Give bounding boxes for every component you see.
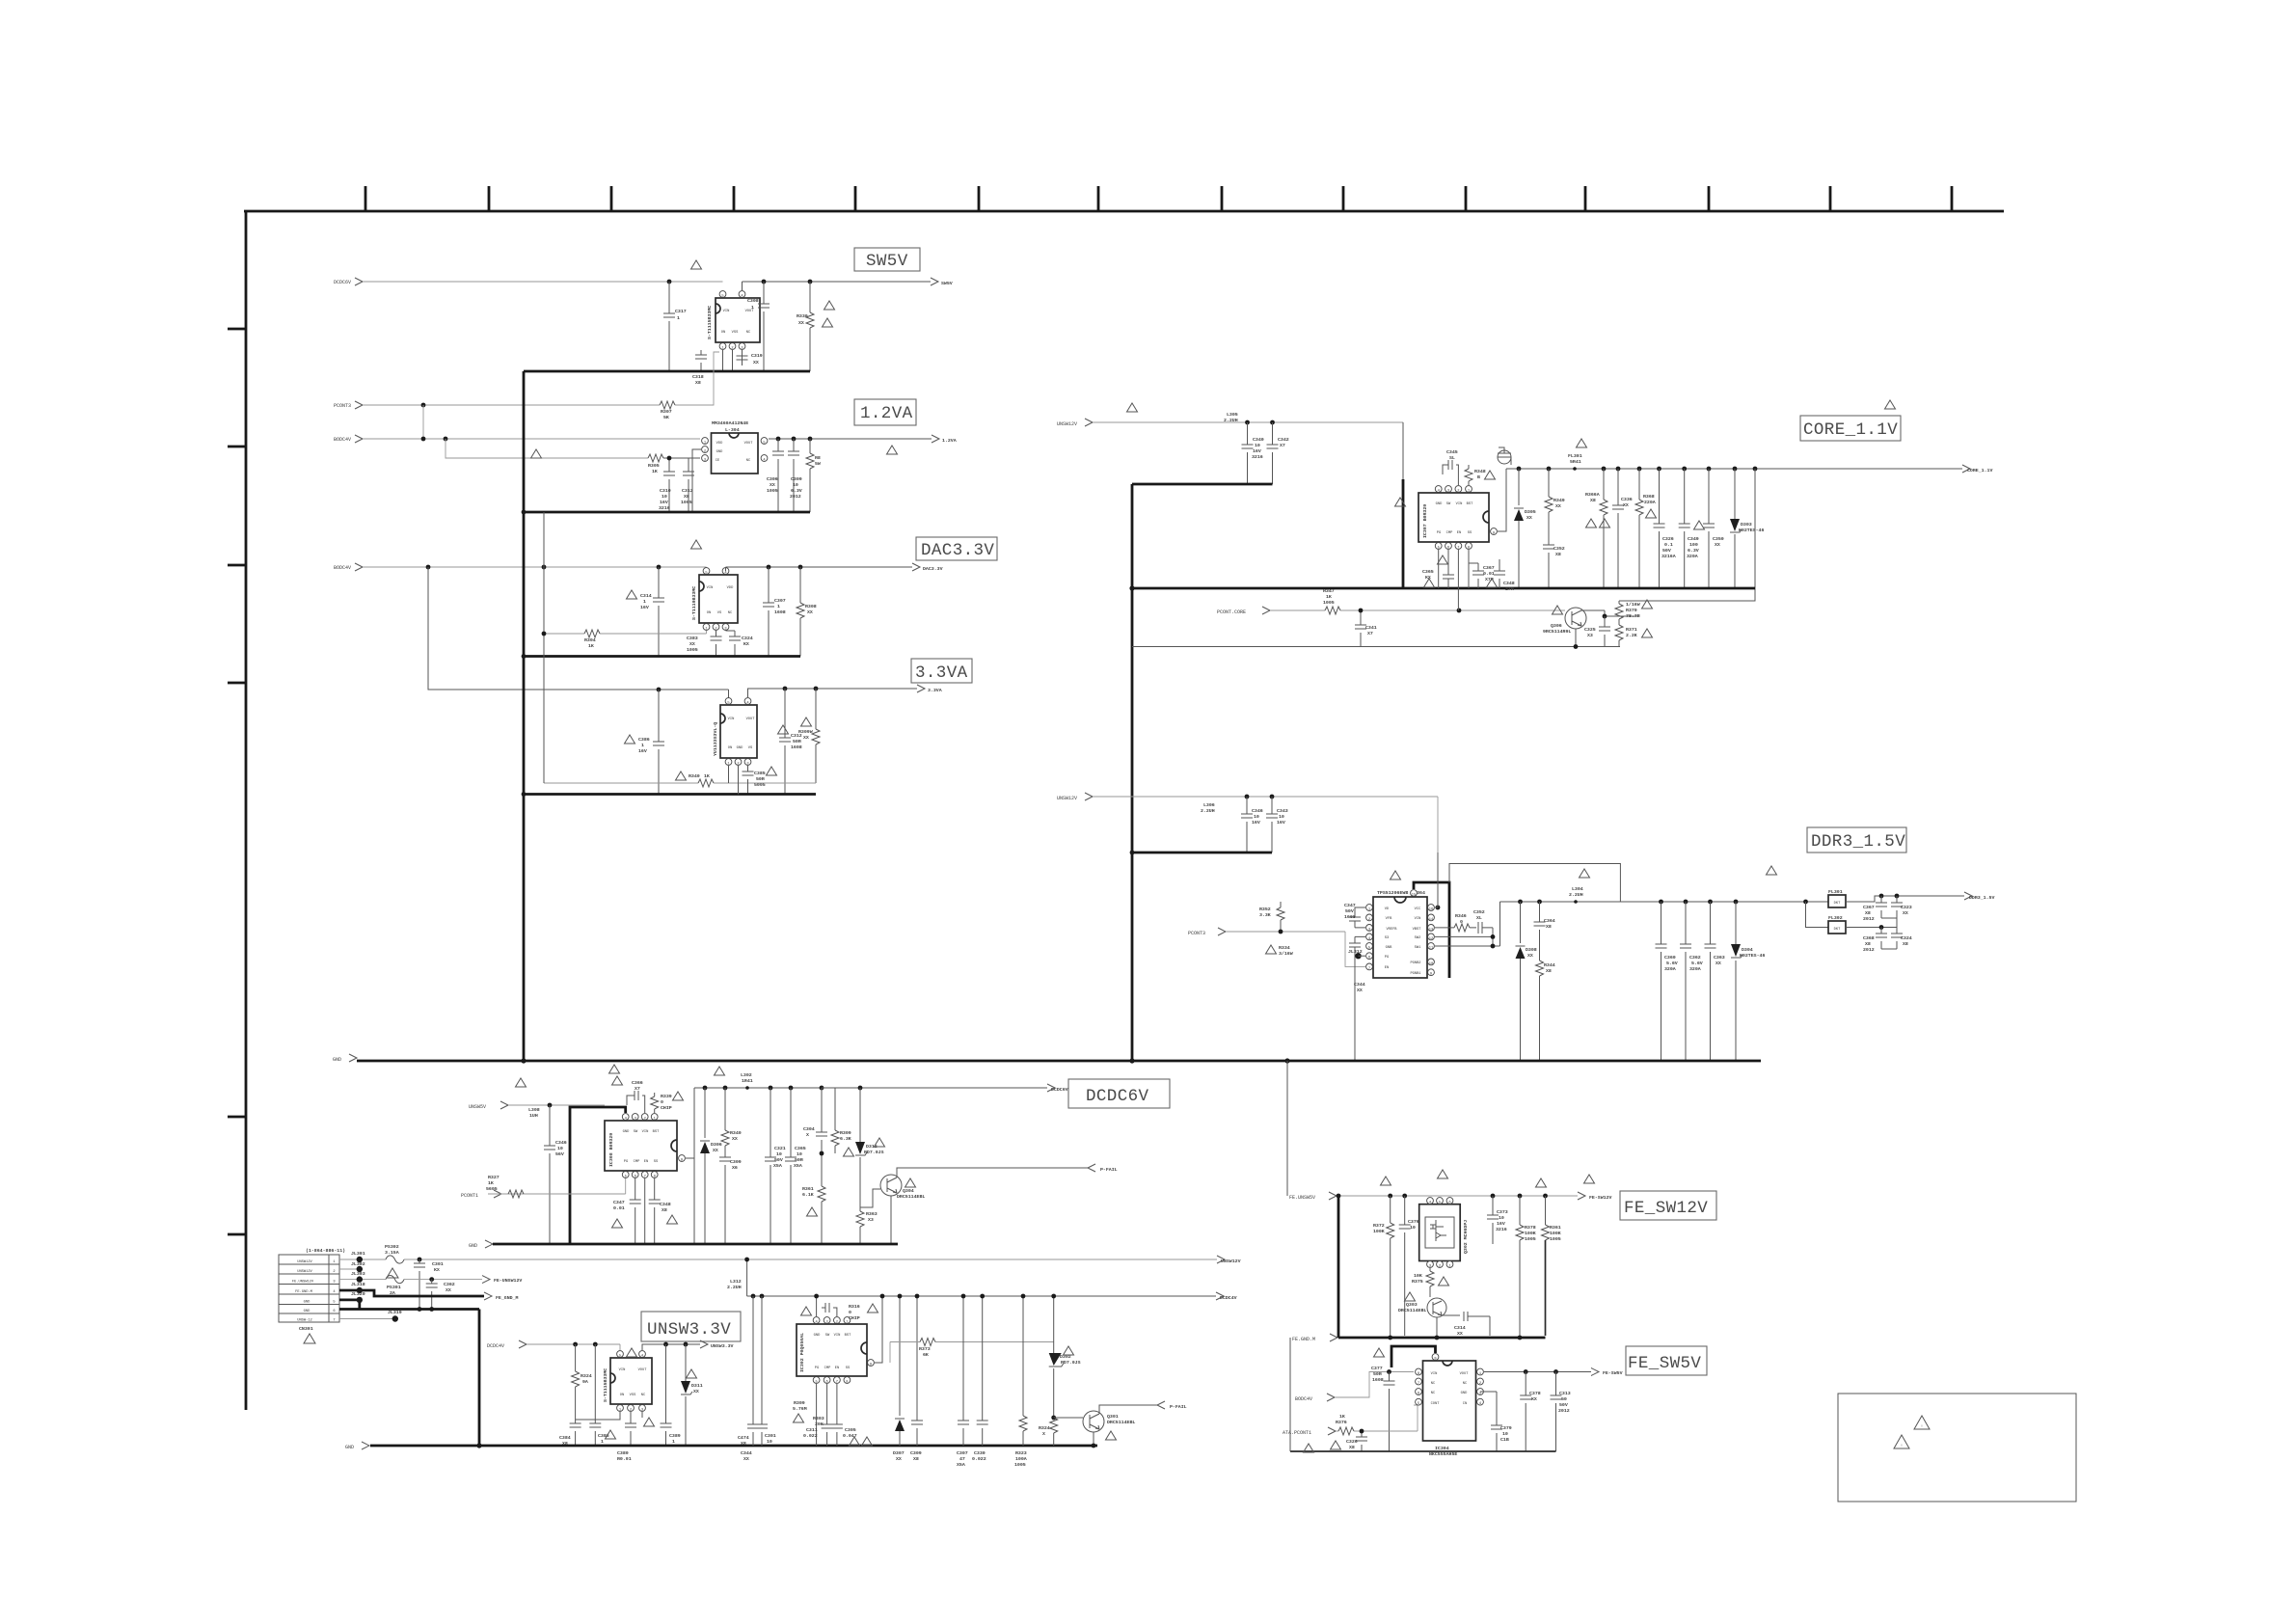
svg-text:C383: C383 [687,636,698,641]
svg-text:Q302 MCH6DPJ: Q302 MCH6DPJ [1463,1220,1469,1254]
svg-text:6: 6 [825,1381,827,1385]
svg-text:C366: C366 [632,1080,643,1086]
junction [1547,467,1552,472]
tick marks top [365,186,1952,211]
pin 3 [744,759,751,767]
svg-text:0: 0 [661,1099,663,1105]
pin 1 [1366,905,1373,912]
capacitor C384 [559,1423,581,1447]
warning triangle [1914,1416,1930,1429]
svg-text:SS: SS [1468,531,1472,535]
wire pin7 link [1457,550,1459,610]
wire CONT [1336,1405,1418,1431]
svg-text:5: 5 [619,1355,621,1359]
pin 9 [868,1360,875,1367]
svg-text:1K: 1K [588,643,594,649]
junction [522,510,527,515]
capacitor C347B [1349,936,1361,1061]
pin 2 [1455,486,1462,494]
label box FE_SW5V [1626,1346,1707,1375]
capacitor C376 [1399,1196,1419,1336]
svg-text:FE.GND.M: FE.GND.M [295,1290,312,1294]
svg-text:1UH: 1UH [529,1113,538,1119]
gnd bus FE_SW5V [1290,1450,1556,1452]
resistor R349 [1545,469,1565,545]
svg-text:XX: XX [1903,910,1908,916]
svg-text:16V: 16V [640,605,649,610]
capacitor C383 [687,631,722,657]
svg-text:2012: 2012 [790,494,801,500]
warning triangle [1127,403,1138,412]
junction [1245,420,1250,425]
svg-text:DAC3.3V: DAC3.3V [921,541,994,560]
svg-text:6.3K: 6.3K [840,1136,851,1142]
svg-text:FL301: FL301 [1568,453,1582,459]
wire PCONT1 [488,1178,626,1194]
junction [657,565,662,570]
resistor R376 [1412,1268,1434,1297]
node DCDC4V entry FE [1295,1394,1335,1402]
svg-text:DAC3.3V: DAC3.3V [923,566,943,572]
zener D312 [855,1088,884,1207]
svg-text:1005: 1005 [1014,1462,1026,1468]
svg-text:X5A: X5A [957,1462,965,1468]
svg-text:PG: PG [624,1160,628,1164]
svg-text:20K: 20K [815,1421,824,1427]
capacitor C379 [1480,1392,1512,1451]
capacitor C345 [1443,449,1458,485]
wire row1 [339,1259,1217,1260]
svg-text:JL318: JL318 [351,1282,365,1287]
svg-text:2: 2 [1479,1382,1481,1386]
svg-text:3: 3 [746,763,748,767]
svg-text:7: 7 [644,1176,646,1179]
svg-text:VBST: VBST [1413,928,1422,932]
svg-text:2.2UH: 2.2UH [1569,892,1583,898]
svg-text:3: 3 [1429,1265,1431,1269]
wire feed thick [1402,479,1405,588]
resistor R324C [572,1344,592,1423]
svg-text:9: 9 [1434,1358,1436,1362]
svg-text:0.01: 0.01 [1483,571,1495,577]
svg-text:3216A: 3216A [1661,554,1676,559]
svg-text:X5A: X5A [794,1163,802,1169]
node SW5V output [931,278,953,286]
wire UNSW5V to IC308 [509,1104,605,1106]
capacitor C330 [972,1294,988,1462]
warning triangle [627,590,637,599]
svg-text:!: ! [1921,1425,1923,1429]
warning triangle [304,1334,315,1343]
capacitor C313 [1551,1372,1571,1452]
svg-text:VIN: VIN [642,1130,649,1134]
capacitor C317 [663,282,687,371]
capacitor C365 [785,1088,806,1244]
warning triangle [850,1437,860,1446]
svg-text:3216: 3216 [659,505,670,511]
svg-text:2012: 2012 [1558,1408,1570,1414]
warning triangle [1767,866,1777,875]
junction [1616,467,1621,472]
svg-text:XX: XX [1715,542,1720,548]
svg-text:C345: C345 [1446,449,1458,455]
svg-text:DDR3_1.5V: DDR3_1.5V [1969,895,1994,901]
junction [1803,900,1808,905]
svg-text:2.2UH: 2.2UH [727,1285,742,1290]
node DCDC6V output [1047,1084,1068,1093]
svg-text:5.6V: 5.6V [1691,961,1703,966]
resistor R373 [919,1339,935,1359]
svg-text:C314: C314 [1454,1325,1466,1331]
pin 2 [702,447,709,454]
svg-text:P-FAIL: P-FAIL [1170,1404,1187,1410]
svg-text:L306: L306 [1203,802,1215,808]
svg-text:7: 7 [836,1381,838,1385]
junction [723,1086,728,1091]
resistor R330 [797,282,814,371]
node 3.3VA output [917,685,942,693]
svg-text:D304: D304 [1742,947,1753,953]
pin 3 [824,1317,830,1325]
warning triangle [1331,1441,1341,1449]
svg-text:5R41: 5R41 [1570,459,1581,465]
svg-text:C362: C362 [1689,955,1701,961]
svg-text:2: 2 [737,763,739,767]
svg-text:5: 5 [727,702,729,706]
svg-text:10: 10 [557,1146,563,1151]
svg-text:C378: C378 [1529,1391,1541,1396]
svg-text:(1-864-886-11): (1-864-886-11) [306,1248,345,1254]
junction [703,1086,708,1091]
wire row7 [339,1318,395,1320]
wire FE left vertical [1289,1338,1291,1451]
svg-text:XX: XX [713,1148,718,1153]
junction [751,1294,756,1299]
svg-text:XX: XX [689,641,695,647]
svg-text:JL302: JL302 [351,1261,365,1267]
svg-text:UNSW12V: UNSW12V [297,1260,312,1264]
wire row2 [339,1268,360,1270]
svg-text:C341: C341 [1365,625,1377,631]
capacitor C350 [1703,469,1724,588]
svg-text:D311: D311 [691,1383,703,1389]
junction [1734,900,1739,905]
border left [245,211,248,1410]
svg-text:16V: 16V [638,748,647,754]
svg-text:10: 10 [1254,814,1259,820]
svg-text:1: 1 [777,604,780,609]
pin 5 [703,568,710,576]
warning triangle [1266,945,1277,954]
svg-text:R346: R346 [1455,913,1467,919]
resistor R339 [651,1093,672,1113]
svg-text:C325: C325 [1584,627,1596,633]
svg-text:JL303: JL303 [351,1271,365,1277]
junction [1435,1336,1440,1340]
svg-text:C342: C342 [1278,437,1289,443]
svg-text:PS301: PS301 [387,1285,401,1290]
node PCONT3 entry DDR [1188,928,1226,936]
svg-text:R304: R304 [584,637,596,643]
junction [767,565,771,570]
svg-text:XX: XX [732,1136,738,1142]
svg-text:C367: C367 [1483,565,1495,571]
svg-text:C309: C309 [910,1450,922,1456]
wire IC364 bst loop [1414,882,1449,978]
svg-text:6.3V: 6.3V [791,488,802,494]
svg-text:C326: C326 [1662,536,1674,542]
svg-text:7: 7 [1418,1382,1419,1386]
svg-text:C386: C386 [638,737,650,743]
junction [858,1086,863,1091]
svg-text:C306: C306 [767,476,778,482]
svg-text:50V: 50V [774,1157,783,1163]
junction [1879,894,1884,899]
pin 2 [729,343,736,351]
wire IC308 pin7 stub [644,1178,646,1244]
transistor Q301 [1083,1411,1135,1432]
wire VOUT to 1.2VA arrow [769,438,932,440]
warning triangle [801,717,812,726]
svg-text:1608: 1608 [1372,1377,1384,1383]
svg-text:NC: NC [746,331,751,335]
svg-text:50V: 50V [1345,908,1354,914]
svg-text:PGNB1: PGNB1 [1410,972,1421,976]
warning triangle [1438,555,1448,564]
jumper JL303 [351,1271,365,1283]
svg-text:DDR3_1.5V: DDR3_1.5V [1811,832,1905,852]
label box DAC3.3V [916,537,997,560]
capacitor C363B [1705,902,1725,1061]
capacitor C377 [1371,1366,1395,1451]
inductor L302 [741,1072,753,1090]
svg-text:GND: GND [814,1334,821,1338]
svg-text:5: 5 [625,1176,627,1179]
svg-text:X8: X8 [695,380,701,386]
junction [1753,467,1758,472]
wire sw join [1435,902,1500,946]
svg-text:IC307 B0R329: IC307 B0R329 [1422,504,1428,538]
label box SW5V [854,248,920,271]
svg-text:PCONT3: PCONT3 [1188,931,1205,936]
svg-text:7: 7 [333,1319,335,1323]
svg-text:VIN: VIN [723,310,730,313]
svg-text:K02TES-46: K02TES-46 [1740,953,1765,959]
wire BODC4V to IC305 [364,567,707,571]
svg-text:320A: 320A [1689,966,1701,972]
svg-text:IC304: IC304 [1435,1446,1449,1451]
junction [1517,467,1522,472]
svg-text:GND: GND [345,1445,354,1450]
capacitor C352 [1543,545,1565,588]
capacitor C352B [1473,909,1493,934]
svg-text:C373: C373 [1497,1209,1508,1215]
svg-text:100K: 100K [1373,1229,1385,1234]
capacitor C349 [1679,469,1699,588]
pin 3 [1427,1261,1434,1269]
op-amp U7 dcdc IC308 [605,1121,677,1171]
warning triangle [1487,579,1498,587]
pin 6 [1446,1198,1453,1205]
junction [1733,467,1738,472]
svg-text:1K: 1K [652,469,658,474]
svg-text:NC: NC [728,611,733,615]
node DAC3.3V output [912,563,943,572]
svg-text:1608: 1608 [774,609,786,615]
note box [1838,1394,2076,1502]
svg-text:FE-SW12V: FE-SW12V [1589,1195,1612,1201]
capacitor C309C [910,1294,923,1462]
wire UNSW12V DDR feed [1093,797,1438,853]
diode D305 [1514,469,1536,588]
junction [548,1103,553,1108]
node UNSW5V entry [469,1101,508,1110]
resistor R346 [1435,913,1476,932]
pin 1 [651,1114,658,1122]
svg-text:5005: 5005 [754,782,766,788]
wire CE link [446,439,648,458]
zener D304 [1731,902,1765,1061]
svg-text:R372: R372 [1373,1223,1385,1229]
capacitor C343 [1266,797,1288,853]
junction [1436,906,1441,910]
svg-text:5: 5 [705,572,707,576]
wire pin9 to rail [686,1088,694,1244]
warning triangle [1304,1444,1314,1452]
junction [880,1294,885,1299]
capacitor C378 [1520,1372,1541,1452]
svg-text:UNSW-12: UNSW-12 [297,1319,312,1323]
svg-text:PG: PG [815,1367,819,1370]
svg-text:FE-UNSW12V: FE-UNSW12V [494,1278,522,1284]
pin 1 [703,624,710,632]
svg-text:VIN: VIN [1456,502,1463,506]
junction [573,1342,578,1347]
svg-text:2: 2 [836,1321,838,1325]
pin 2 [1366,914,1373,922]
svg-text:CE: CE [716,459,720,463]
junction [1682,467,1687,472]
zener D303 [1730,469,1764,588]
wire row6 gnd [339,1310,479,1447]
svg-text:12: 12 [1429,937,1433,941]
junction [522,654,527,659]
svg-text:PS302: PS302 [385,1244,399,1250]
svg-text:DRC5114EBL: DRC5114EBL [1398,1308,1426,1313]
node 1.2VA output [932,435,957,444]
svg-text:R348: R348 [1474,469,1486,474]
svg-text:3: 3 [704,459,706,463]
svg-text:C326: C326 [1346,1439,1358,1445]
op-amp U9 switcher IC302 [797,1324,867,1376]
pin 7 [641,1172,648,1179]
svg-text:5W: 5W [815,461,821,467]
svg-text:50R: 50R [1373,1371,1382,1377]
svg-text:ON: ON [728,746,732,750]
svg-text:10: 10 [1499,1215,1504,1221]
junction [1602,467,1607,472]
svg-text:CMP: CMP [1446,531,1453,535]
svg-text:9: 9 [1493,532,1495,536]
svg-text:BODC4V: BODC4V [334,437,351,443]
wire IC302 pin5 stub [816,1384,818,1446]
pin 5 [1416,1398,1422,1406]
pin 3 [1477,1389,1484,1396]
junction [667,456,672,461]
svg-text:1.2VA: 1.2VA [860,404,913,423]
svg-text:DKT: DKT [1834,928,1841,932]
svg-text:B: B [1477,474,1480,480]
pin 5 [1435,543,1442,551]
junction [789,1086,794,1091]
inductor L304 [1569,886,1583,904]
svg-text:JL312: JL312 [1348,949,1363,955]
junction [429,1307,434,1312]
inductor L305 [1224,412,1238,423]
svg-text:GNB: GNB [1386,946,1392,950]
capacitor C347 [613,1178,641,1244]
filter FL301 [1828,889,1846,907]
pin 5 [719,291,726,299]
junction [657,688,662,692]
node PCONT3 entry [334,401,363,409]
svg-text:16V: 16V [1252,820,1260,826]
pin 1 [844,1317,851,1325]
warning triangle [1553,606,1563,614]
junction [1684,900,1688,905]
svg-text:1608: 1608 [791,744,802,750]
junction [1129,1058,1134,1063]
node FE_GND_M entry [1292,1334,1337,1342]
svg-text:R352: R352 [1259,907,1271,912]
svg-text:C318: C318 [692,374,704,380]
pin 3 [632,1114,638,1122]
svg-text:C319: C319 [751,353,763,359]
capacitor C474 [738,1296,759,1447]
wire IC308 gnd loop [570,1107,626,1244]
svg-text:100A: 100A [1015,1456,1027,1462]
svg-text:11: 11 [1429,947,1434,951]
resistor R363B [856,1207,878,1244]
svg-text:X8: X8 [684,494,689,500]
svg-text:SW1: SW1 [1415,946,1421,950]
gnd vertical x1174 [1131,484,1134,1061]
svg-text:D308: D308 [1526,947,1537,953]
svg-text:C376: C376 [1408,1219,1419,1225]
inductor L308 [528,1107,540,1119]
pin 3 [1445,486,1452,494]
svg-text:GND: GND [333,1057,341,1063]
resistor R352 [1259,902,1284,932]
svg-text:EN: EN [1457,531,1461,535]
svg-text:3216: 3216 [1252,454,1263,460]
svg-text:UNSW3.3V: UNSW3.3V [647,1320,731,1340]
svg-text:C324: C324 [742,636,753,641]
resistor R324B [1039,1418,1058,1446]
resistor R344 [1536,961,1555,1061]
svg-text:VS: VS [717,611,722,615]
svg-text:PCONT1: PCONT1 [461,1193,478,1199]
svg-text:5.76M: 5.76M [793,1406,807,1412]
svg-text:JL301: JL301 [351,1251,365,1257]
resistor R309C [793,1400,807,1412]
capacitor C305 [831,1384,857,1446]
capacitor C386B [589,1344,609,1446]
node BODC4V entry 2 [334,563,363,571]
warning triangle [609,1065,620,1073]
svg-text:C309: C309 [791,476,802,482]
svg-text:ON: ON [721,331,725,335]
